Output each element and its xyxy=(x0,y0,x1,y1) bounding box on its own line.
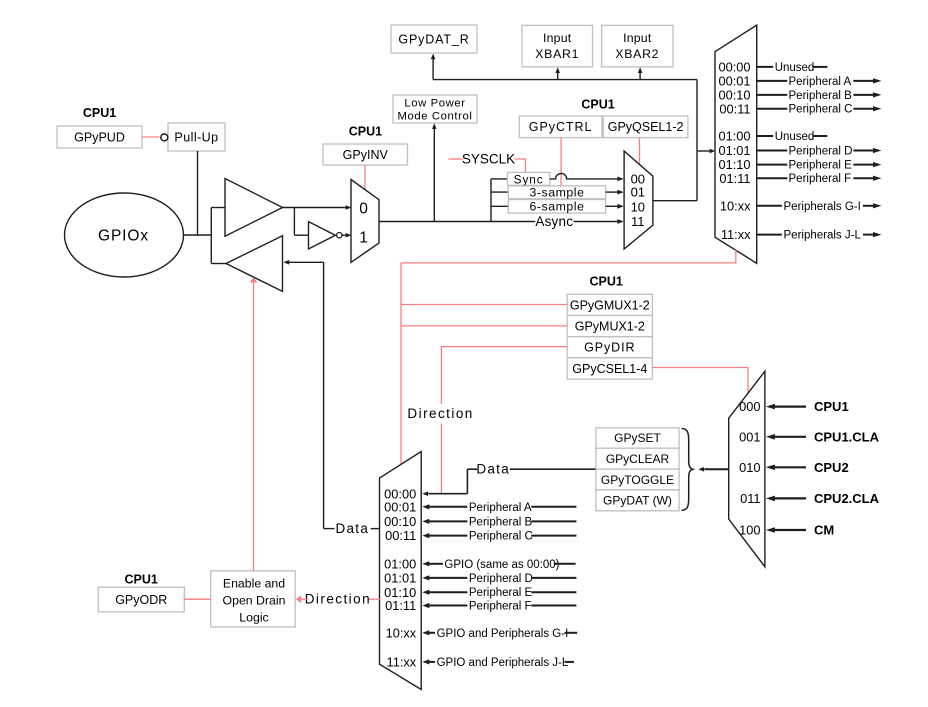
svg-text:11:xx: 11:xx xyxy=(387,655,417,670)
register box GPyCLEAR xyxy=(596,448,679,469)
svg-text:CPU2.CLA: CPU2.CLA xyxy=(814,491,880,506)
svg-text:Peripheral D: Peripheral D xyxy=(789,146,853,158)
register box GPyCSEL1-4 xyxy=(567,358,652,379)
block Sync xyxy=(508,172,550,185)
wire master mux output to register group xyxy=(705,468,729,470)
wire red GPyPUD to pull-up bubble xyxy=(142,136,159,138)
svg-text:SYSCLK: SYSCLK xyxy=(462,152,515,167)
svg-text:CPU1: CPU1 xyxy=(83,106,116,120)
svg-text:Peripheral F: Peripheral F xyxy=(789,173,852,185)
svg-text:GPyDAT (W): GPyDAT (W) xyxy=(603,494,672,508)
svg-text:XBAR1: XBAR1 xyxy=(535,47,579,61)
wire red GPyODR to enable logic xyxy=(184,598,210,600)
wire data from registers to 00:00 slot xyxy=(510,468,596,470)
svg-text:CPU1: CPU1 xyxy=(125,573,158,587)
block Input XBAR2 xyxy=(602,25,673,66)
svg-text:00:10: 00:10 xyxy=(718,88,750,103)
svg-text:Mode Control: Mode Control xyxy=(397,111,472,123)
wire pad to buffers xyxy=(184,234,213,236)
wire Peripherals J-L output at 11:xx xyxy=(757,234,782,236)
demux U-PERIPH (GPIO peripheral select) xyxy=(715,25,757,263)
wire Peripheral B output at 00:10 xyxy=(757,94,788,96)
svg-text:00:11: 00:11 xyxy=(385,528,416,543)
svg-text:10: 10 xyxy=(631,199,645,214)
svg-text:00:10: 00:10 xyxy=(384,514,416,529)
svg-text:010: 010 xyxy=(739,460,760,475)
svg-text:011: 011 xyxy=(740,491,760,506)
register box GPyDIR xyxy=(567,337,652,358)
svg-text:CPU1: CPU1 xyxy=(590,274,623,288)
register box GPyMUX1-2 xyxy=(567,316,652,337)
wire stub from output buffer xyxy=(211,263,226,265)
svg-text:Pull-Up: Pull-Up xyxy=(174,130,218,144)
svg-text:GPySET: GPySET xyxy=(614,431,661,445)
wire CM input xyxy=(766,527,775,533)
svg-text:Unused: Unused xyxy=(775,131,815,143)
svg-text:GPyDAT_R: GPyDAT_R xyxy=(398,32,469,46)
wire red GPyCSEL1-4 to master select mux xyxy=(652,368,748,393)
svg-text:CPU1.CLA: CPU1.CLA xyxy=(814,429,880,444)
wire vertical buffer tie xyxy=(210,208,212,264)
wire Peripheral A input at 00:01 xyxy=(422,504,429,509)
mux U-QUAL (input qualification) xyxy=(624,151,653,249)
svg-text:Logic: Logic xyxy=(239,611,268,625)
svg-text:GPyODR: GPyODR xyxy=(115,593,167,607)
wire red GPyMUX1-2 select xyxy=(401,325,567,327)
demux U-OUT (output data select) xyxy=(380,452,422,690)
wire GPIO and Peripherals G-I input at 10:xx xyxy=(422,630,429,635)
output buffer (to pin) xyxy=(226,236,283,292)
wire CPU1 input xyxy=(766,404,775,410)
wire branch into peripheral demux xyxy=(697,150,710,152)
wire red GPyGMUX1-2 select xyxy=(401,304,567,306)
svg-text:100: 100 xyxy=(739,523,760,538)
svg-text:6-sample: 6-sample xyxy=(530,200,585,214)
svg-text:11: 11 xyxy=(631,214,645,229)
svg-text:GPIO and Peripherals J-L: GPIO and Peripherals J-L xyxy=(437,657,569,669)
register box GPyDAT_R xyxy=(391,25,477,53)
wire Peripheral C output at 00:11 xyxy=(757,108,788,110)
svg-text:GPyTOGGLE: GPyTOGGLE xyxy=(601,473,674,487)
svg-text:Async: Async xyxy=(535,214,573,229)
svg-text:XBAR2: XBAR2 xyxy=(615,47,659,61)
register box GPyINV xyxy=(323,144,408,165)
wire Peripheral F output at 01:11 xyxy=(757,177,788,179)
wire 3-sample out xyxy=(606,191,618,193)
svg-text:GPyCLEAR: GPyCLEAR xyxy=(606,452,670,466)
svg-text:00:01: 00:01 xyxy=(718,74,750,89)
svg-text:Peripherals J-L: Peripherals J-L xyxy=(784,230,862,242)
wire red mux-select rail to periph demux xyxy=(401,250,736,263)
wire red Direction into enable logic xyxy=(368,598,380,600)
svg-text:GPIO (same as 00:00): GPIO (same as 00:00) xyxy=(444,559,559,571)
wire output demux to output buffer (Data) xyxy=(371,528,380,530)
block 6-sample xyxy=(508,200,605,214)
svg-text:3-sample: 3-sample xyxy=(530,186,585,200)
wire Unused output at 01:00 xyxy=(757,135,774,137)
svg-text:001: 001 xyxy=(739,429,760,444)
wire red direction continues xyxy=(440,424,442,494)
wire red SYSCLK to Sync xyxy=(515,159,526,172)
svg-text:Data: Data xyxy=(335,521,369,536)
wire GPIO and Peripherals J-L input at 11:xx xyxy=(422,659,429,664)
svg-text:00:11: 00:11 xyxy=(719,101,750,116)
wire Peripheral C input at 00:11 xyxy=(422,533,429,538)
svg-text:00:01: 00:01 xyxy=(384,499,416,514)
wire GPIO (same as 00:00) input at 01:00 xyxy=(422,561,429,566)
wire 6-sample out xyxy=(606,205,618,207)
svg-text:GPIOx: GPIOx xyxy=(98,227,149,244)
wire Peripheral B input at 00:10 xyxy=(422,519,429,524)
wire CPU2.CLA input xyxy=(766,496,775,502)
register box GPyTOGGLE xyxy=(596,469,679,490)
block Input XBAR1 xyxy=(522,25,593,66)
svg-text:Peripheral E: Peripheral E xyxy=(469,587,533,599)
svg-text:CPU1: CPU1 xyxy=(581,98,614,112)
block Low Power Mode Control xyxy=(393,95,477,123)
svg-text:Peripheral B: Peripheral B xyxy=(469,516,533,528)
wire red GPyCTRL to sample blocks xyxy=(560,138,562,186)
register box GPyCTRL xyxy=(519,116,602,138)
svg-text:Open Drain: Open Drain xyxy=(223,594,286,608)
svg-text:Sync: Sync xyxy=(514,172,544,186)
svg-text:0: 0 xyxy=(359,201,368,218)
svg-text:CPU1: CPU1 xyxy=(349,125,382,139)
svg-text:10:xx: 10:xx xyxy=(720,198,751,213)
wire INV mux output main run xyxy=(379,221,535,223)
wire arrow to Input XBAR1 xyxy=(557,72,559,80)
svg-text:000: 000 xyxy=(739,399,760,414)
svg-text:CPU2: CPU2 xyxy=(814,460,849,475)
svg-text:Data: Data xyxy=(476,462,510,477)
svg-text:GPyMUX1-2: GPyMUX1-2 xyxy=(575,319,645,333)
svg-text:01:00: 01:00 xyxy=(718,129,750,144)
svg-text:Direction: Direction xyxy=(305,592,371,607)
wire qual mux output xyxy=(653,200,697,202)
wire red GPyINV select xyxy=(364,165,366,190)
register box GPyGMUX1-2 xyxy=(567,294,652,315)
svg-text:01:01: 01:01 xyxy=(384,571,416,586)
svg-text:Input: Input xyxy=(543,31,572,45)
wire Sync out with hop over red xyxy=(550,173,618,179)
wire arrow to GPyDAT_R xyxy=(432,59,434,80)
svg-text:1: 1 xyxy=(359,229,368,246)
wire red enable to output buffer xyxy=(253,283,255,571)
wire red GPyQSEL to qual mux xyxy=(639,138,641,165)
svg-text:Direction: Direction xyxy=(407,406,473,421)
wire Peripheral E input at 01:10 xyxy=(422,590,429,595)
wire arrow to Input XBAR2 xyxy=(639,72,641,80)
svg-text:GPyQSEL1-2: GPyQSEL1-2 xyxy=(608,120,684,134)
svg-text:Peripheral D: Peripheral D xyxy=(469,573,533,585)
register box GPyODR xyxy=(98,587,184,612)
svg-text:01:00: 01:00 xyxy=(384,556,416,571)
mux U-INV (0/1 invert select) xyxy=(351,180,379,263)
svg-text:GPyDIR: GPyDIR xyxy=(584,341,635,355)
pull-up disable bubble xyxy=(161,134,168,141)
wire input buffer output to INV mux 0 xyxy=(283,207,346,209)
wire Peripheral E output at 01:10 xyxy=(757,164,788,166)
wire Unused output at 00:00 xyxy=(757,66,774,68)
svg-text:Peripherals G-I: Peripherals G-I xyxy=(784,201,861,213)
svg-text:Peripheral E: Peripheral E xyxy=(789,160,853,172)
register box GPySET xyxy=(596,428,679,448)
svg-text:CPU1: CPU1 xyxy=(814,399,849,414)
svg-text:Peripheral C: Peripheral C xyxy=(469,531,533,543)
svg-text:GPyINV: GPyINV xyxy=(343,148,389,162)
input buffer (to core) xyxy=(225,179,283,237)
wire red select vertical xyxy=(400,263,402,465)
wire qualification input bus xyxy=(490,179,492,222)
svg-text:11:xx: 11:xx xyxy=(721,227,751,242)
svg-text:Peripheral F: Peripheral F xyxy=(469,601,532,613)
wire CPU1.CLA input xyxy=(766,434,775,440)
wire top rail xyxy=(433,79,697,81)
wire Peripheral A output at 00:01 xyxy=(757,80,788,82)
wire Peripheral D output at 01:01 xyxy=(757,150,788,152)
svg-text:Enable and: Enable and xyxy=(223,577,285,591)
wire vertical to top rail xyxy=(696,80,698,201)
svg-text:GPyPUD: GPyPUD xyxy=(74,130,125,144)
wire stub to input buffer xyxy=(211,207,225,209)
block Enable and Open Drain Logic xyxy=(211,571,296,627)
register box GPyQSEL1-2 xyxy=(603,116,688,138)
svg-text:Unused: Unused xyxy=(775,62,815,74)
wire red SYSCLK left stub xyxy=(448,158,462,160)
block 3-sample xyxy=(508,186,605,199)
svg-text:01: 01 xyxy=(631,185,645,200)
inverter xyxy=(309,222,336,249)
wire CPU2 input xyxy=(766,465,775,471)
svg-text:GPIO and Peripherals G-I: GPIO and Peripherals G-I xyxy=(437,628,569,640)
brace for register group xyxy=(682,429,693,511)
wire red GPyDIR direction xyxy=(441,347,567,404)
svg-text:01:01: 01:01 xyxy=(718,143,750,158)
svg-text:Peripheral B: Peripheral B xyxy=(789,90,853,102)
block Pull-Up xyxy=(168,123,225,151)
register box GPyDAT (W) xyxy=(596,490,679,511)
register box GPyPUD xyxy=(57,126,142,148)
svg-text:GPyCTRL: GPyCTRL xyxy=(529,120,593,134)
wire Peripherals G-I output at 10:xx xyxy=(757,205,782,207)
wire Peripheral F input at 01:11 xyxy=(422,603,429,608)
svg-text:GPyGMUX1-2: GPyGMUX1-2 xyxy=(570,298,650,312)
wire branch to inverter xyxy=(293,208,295,236)
svg-text:Peripheral A: Peripheral A xyxy=(469,502,532,514)
svg-text:01:11: 01:11 xyxy=(719,171,750,186)
GPIOx pad ellipse xyxy=(65,193,184,277)
svg-text:Peripheral C: Peripheral C xyxy=(789,104,853,116)
svg-text:Low Power: Low Power xyxy=(404,98,465,110)
svg-text:01:11: 01:11 xyxy=(385,598,416,613)
wire pull-up drop to pad net xyxy=(197,151,199,236)
mux U-MASTER (CPU master select) xyxy=(729,371,765,567)
svg-text:CM: CM xyxy=(814,523,834,538)
wire rise to Low Power Mode Control xyxy=(433,129,435,222)
svg-text:10:xx: 10:xx xyxy=(386,625,417,640)
wire Peripheral D input at 01:01 xyxy=(422,575,429,580)
svg-text:Peripheral A: Peripheral A xyxy=(789,76,852,88)
svg-text:GPyCSEL1-4: GPyCSEL1-4 xyxy=(572,362,647,376)
svg-text:00:00: 00:00 xyxy=(718,60,750,75)
svg-text:Input: Input xyxy=(623,31,652,45)
wire inverter to INV mux 1 xyxy=(341,234,345,236)
